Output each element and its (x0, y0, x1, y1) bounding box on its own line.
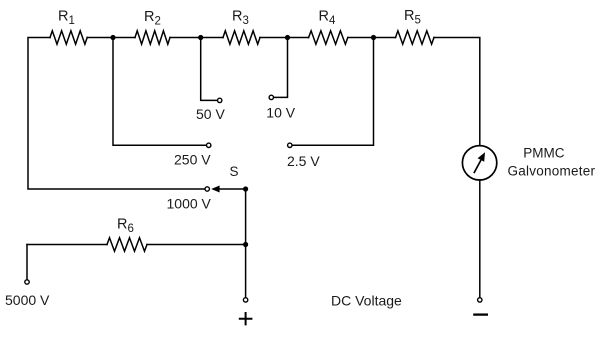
wire 250V tap from junction J1 (113, 38, 206, 146)
galvanometer needle arrowhead (478, 152, 485, 162)
svg-text:R3: R3 (232, 9, 249, 28)
svg-text:5000 V: 5000 V (5, 292, 50, 308)
terminal 10V (269, 95, 273, 99)
svg-text:250 V: 250 V (174, 152, 211, 168)
svg-text:10 V: 10 V (266, 105, 295, 121)
wire R2 to R3 (170, 37, 223, 39)
resistor R5 (396, 31, 435, 44)
switch S arrowhead (211, 186, 219, 193)
svg-text:PMMC: PMMC (523, 146, 564, 161)
junction node J2 (198, 35, 203, 40)
resistor R1 (50, 31, 87, 44)
svg-text:50 V: 50 V (196, 106, 225, 122)
resistor R4 (309, 31, 348, 44)
minus symbol at - terminal (473, 313, 488, 315)
svg-text:Galvonometer: Galvonometer (508, 164, 596, 179)
svg-text:DC Voltage: DC Voltage (331, 292, 402, 308)
wire 5000V drop (26, 245, 28, 280)
junction node R6 / switch vertical (243, 242, 248, 247)
terminal 250V (207, 143, 211, 147)
wire R3 to R4 (260, 37, 309, 39)
wire switch arm to pole (219, 188, 246, 190)
galvanometer G circle (462, 146, 496, 180)
wire 10V tap from junction J3 (274, 38, 288, 98)
svg-text:2.5 V: 2.5 V (287, 153, 320, 169)
svg-text:1000 V: 1000 V (167, 196, 212, 212)
terminal 2.5V (288, 143, 292, 147)
junction node switch pole (243, 186, 248, 191)
wire 2.5V tap from junction J4 (292, 38, 373, 146)
svg-text:R6: R6 (117, 217, 134, 236)
terminal plus (243, 298, 247, 302)
wire R5 to galvanometer top (434, 38, 480, 146)
wire R6 to switch vertical (147, 244, 246, 246)
terminal 5000V (25, 280, 29, 284)
galvanometer needle (474, 160, 481, 173)
terminal minus (478, 298, 482, 302)
wire switch pole vertical to + terminal (245, 189, 247, 298)
wire top-left segment and left vertical down to 1000V line (28, 38, 205, 190)
terminal 1000V (205, 187, 209, 191)
svg-text:R5: R5 (404, 8, 421, 27)
resistor R6 (107, 238, 147, 251)
junction node J3 (285, 35, 290, 40)
svg-text:R4: R4 (319, 9, 336, 28)
junction node J4 (371, 35, 376, 40)
plus symbol at + terminal (239, 312, 253, 325)
wire R1 to R2 (87, 37, 135, 39)
junction node J1 (110, 35, 115, 40)
resistor R3 (223, 31, 260, 44)
svg-text:R1: R1 (58, 9, 75, 28)
wire 50V tap from junction J2 (201, 38, 218, 101)
svg-text:R2: R2 (144, 9, 161, 28)
wire R4 to R5 (348, 37, 396, 39)
terminal 50V (218, 98, 222, 102)
svg-text:S: S (230, 164, 239, 179)
wire R6 line left portion (27, 244, 107, 246)
resistor R2 (135, 31, 170, 44)
wire galvanometer bottom to minus terminal (479, 180, 481, 298)
